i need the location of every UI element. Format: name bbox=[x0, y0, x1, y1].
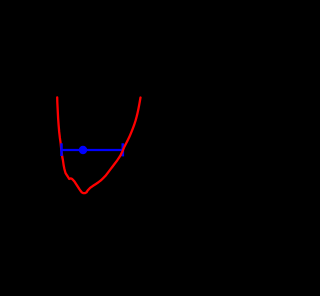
blue dot bbox=[79, 146, 87, 154]
blue chord line bbox=[62, 149, 123, 151]
red curve bbox=[57, 97, 140, 193]
right cap bbox=[122, 143, 125, 156]
chart: red curve with blue chord bbox=[0, 0, 229, 296]
left cap bbox=[60, 143, 63, 156]
